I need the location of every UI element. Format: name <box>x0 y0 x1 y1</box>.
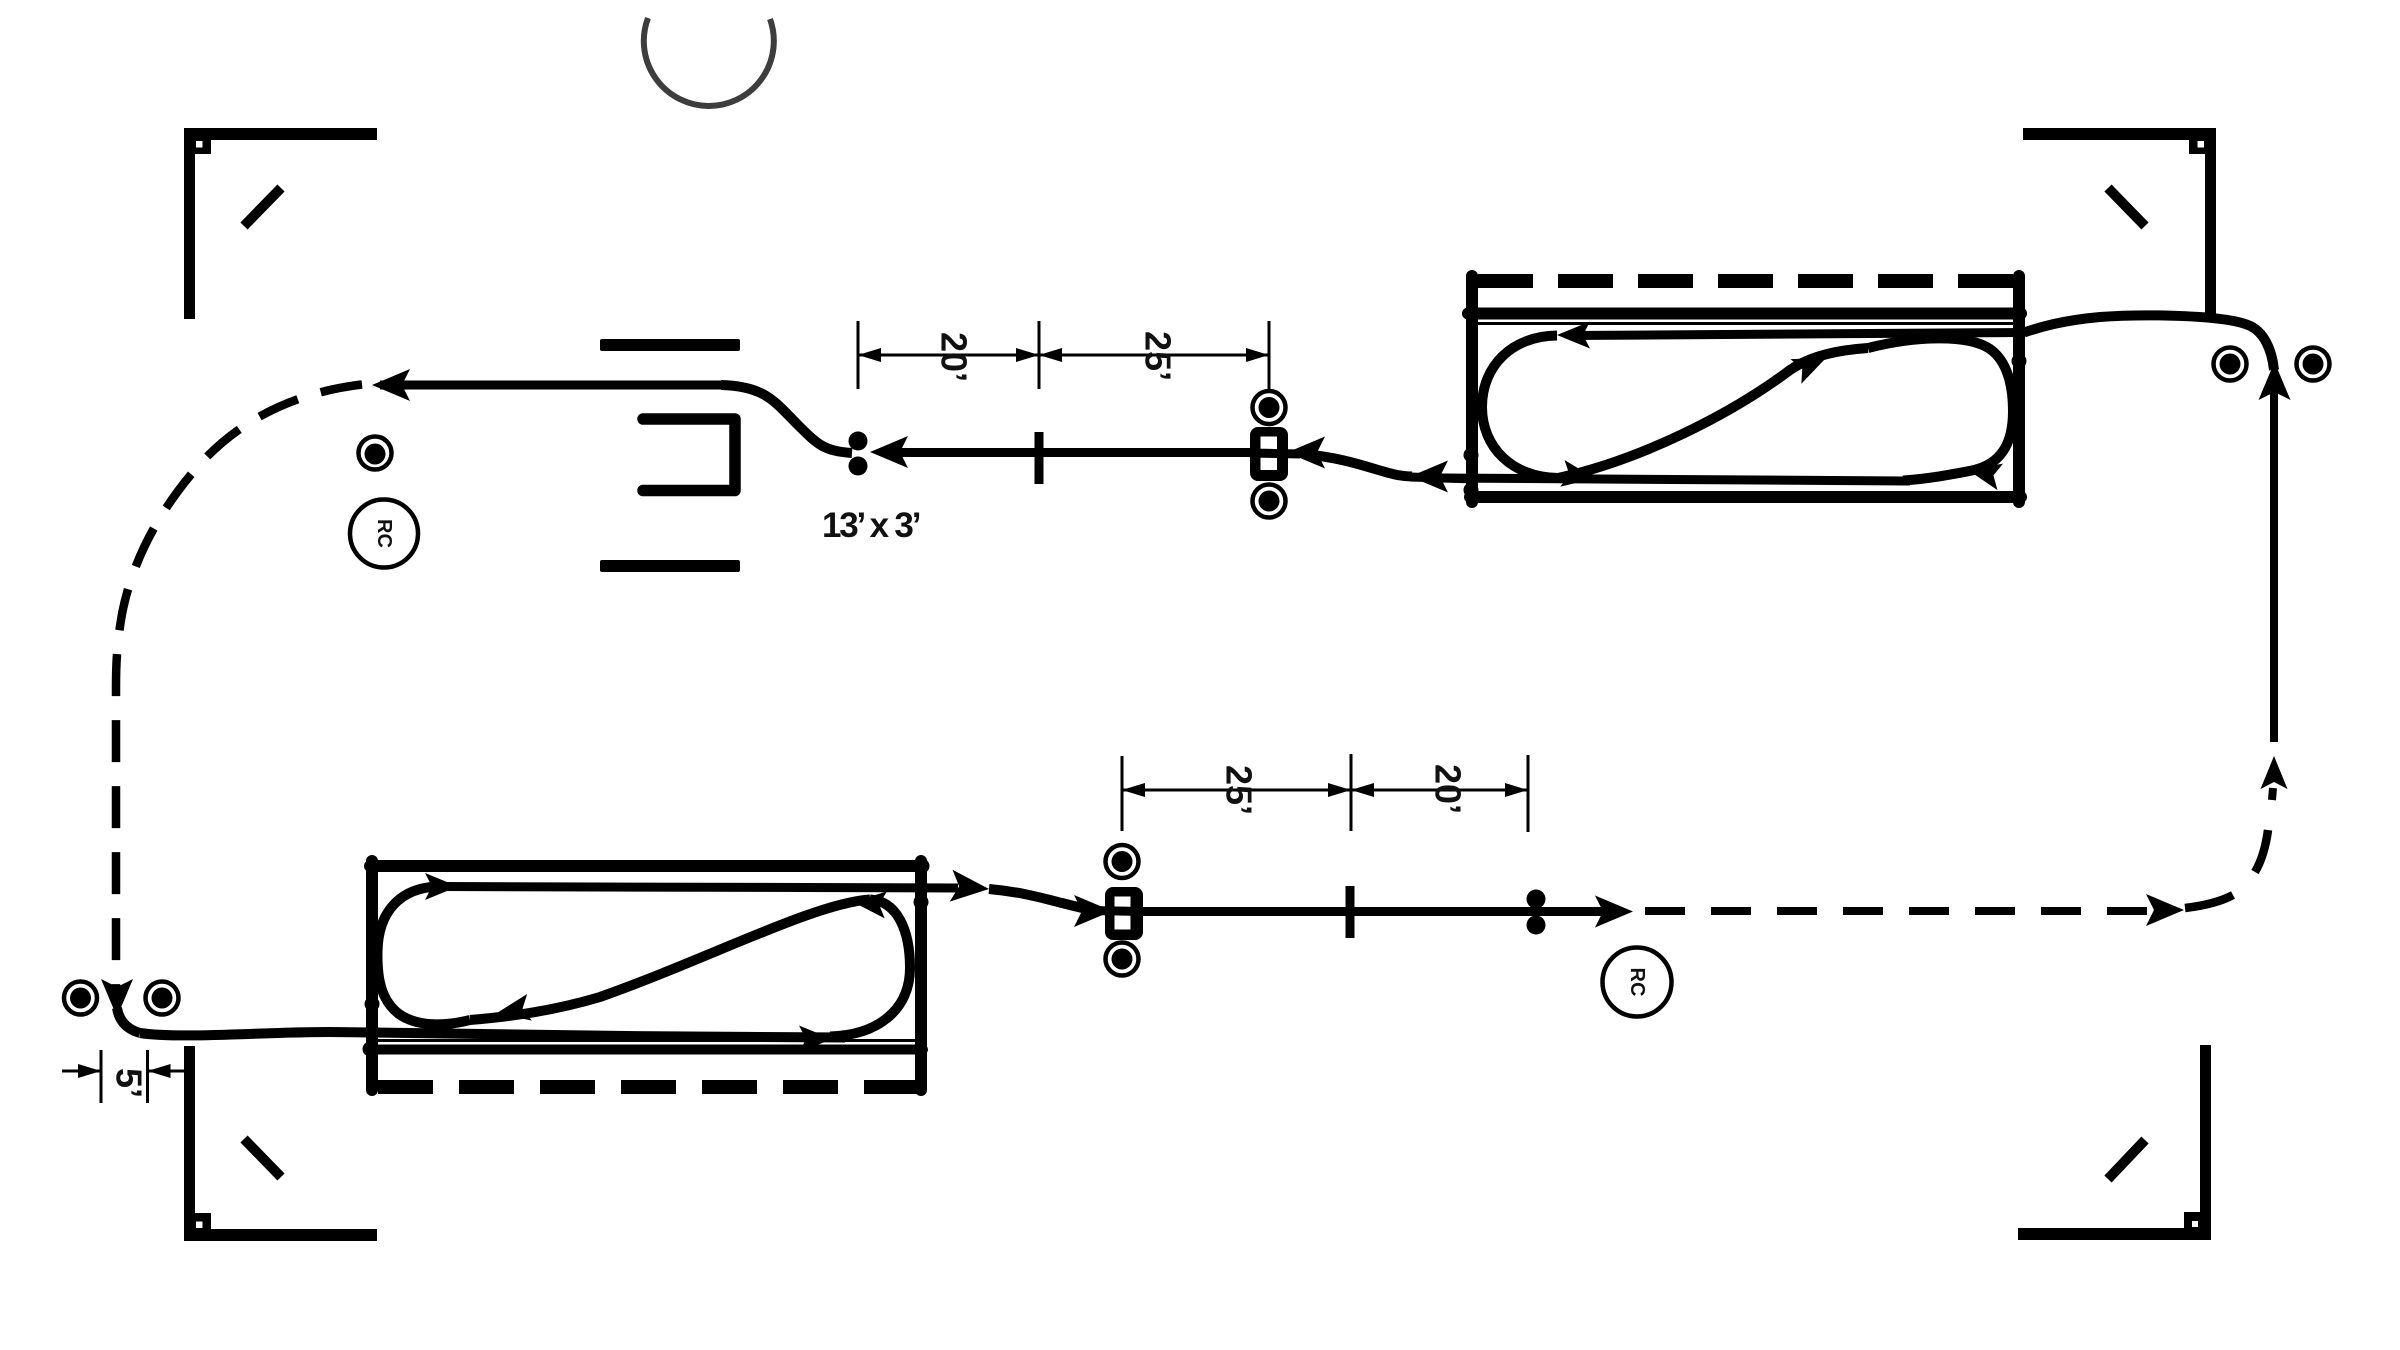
dashed line east <box>1645 907 2150 915</box>
top box path: entry arrow <box>1557 322 1590 349</box>
top box path: bottom return <box>1440 478 1910 481</box>
top box path: left U turn <box>1482 336 1558 479</box>
top box path: loop arrow <box>1965 457 2003 490</box>
top dimension: extension ticks <box>857 321 860 389</box>
corner marker top-right <box>2023 128 2216 319</box>
top box thin line <box>1474 322 2016 325</box>
bottom box path: entry arrow <box>799 1026 832 1053</box>
5ft dimension arrows <box>62 1070 101 1073</box>
bullseye cone upper-left <box>359 437 392 470</box>
bottom box path: diagonal arrow <box>495 994 532 1026</box>
svg-text:20’: 20’ <box>1427 764 1468 814</box>
chute C shape <box>643 419 735 491</box>
bottom course: 25ft tick <box>1346 886 1355 938</box>
top course: 25ft tick <box>1035 432 1044 484</box>
top box bottom edge <box>1470 491 2021 503</box>
bottom box cone dots on edges <box>365 997 380 1012</box>
bottom dimension ticks <box>1121 756 1124 831</box>
top course: gate arrow <box>1287 437 1325 469</box>
entry curve from dashed arrow <box>117 1008 140 1033</box>
bottom dimension line 20ft <box>1351 789 1528 792</box>
svg-text:20’: 20’ <box>933 332 974 382</box>
corner tick bottom-right <box>2108 1140 2145 1179</box>
top dimension line 20ft <box>858 354 1039 357</box>
bottom box path: left loop <box>377 887 470 1025</box>
top box path: diagonal arrow <box>1790 346 1831 384</box>
bottom box thin line <box>376 1039 917 1042</box>
dashed turn: up arrow dash <box>2272 788 2273 800</box>
bottom course cone dots <box>1527 890 1546 909</box>
bottom box dashed edge <box>378 1080 921 1094</box>
bottom box path: exit S curve <box>989 889 1093 910</box>
top box left side <box>1466 276 1478 502</box>
svg-text:25’: 25’ <box>1137 331 1178 381</box>
RC circle lower <box>1603 948 1672 1017</box>
corner tick top-left <box>244 188 281 226</box>
top gate symbol <box>1250 427 1288 481</box>
corner marker top-left <box>184 128 377 319</box>
bottom dimension line 25ft <box>1122 789 1351 792</box>
top course: exit arrow <box>1410 461 1448 493</box>
RC circle upper <box>350 500 418 568</box>
corner tick bottom-left <box>244 1139 281 1177</box>
dashed turn: mid dash <box>2255 830 2268 872</box>
bottom box path: U turn arrow <box>852 889 887 919</box>
arrow before dashes <box>1595 896 1633 928</box>
bottom box bottom edge <box>370 1045 923 1055</box>
top box path: diagonal <box>1558 348 1868 478</box>
bottom box left side <box>366 861 378 1090</box>
top box inner long line <box>1468 308 2021 320</box>
cone bullseye above top gate <box>1253 391 1286 424</box>
svg-text:RC: RC <box>373 519 395 548</box>
corner marker bottom-left <box>184 1046 377 1241</box>
top course: exit line into box <box>1410 477 1475 479</box>
dashed return arrow down <box>101 979 133 1017</box>
svg-text:5’: 5’ <box>108 1068 149 1098</box>
bullseye cone right-B <box>2297 348 2330 381</box>
bullseye cone right-A <box>2214 348 2247 381</box>
top course: west arrow <box>372 369 410 401</box>
top dimension line 25ft <box>1039 354 1269 357</box>
top course: S curve <box>721 385 852 453</box>
bullseye cone start-right <box>146 982 179 1015</box>
right vertical approach line <box>2270 372 2278 742</box>
top box path: entry line <box>1570 333 2024 336</box>
cone dots at 20ft point <box>849 432 868 451</box>
top course: mid line <box>900 448 1250 457</box>
top box path: U turn arrow <box>1560 460 1597 492</box>
svg-text:25’: 25’ <box>1218 765 1259 815</box>
bullseye cone start-left <box>64 982 97 1015</box>
bottom box path: exit arrow <box>950 870 991 905</box>
top course: arrow at dots <box>870 436 908 468</box>
top course: west line <box>380 381 721 390</box>
chute bar lower <box>600 560 740 572</box>
bottom box path: top line arrow <box>425 873 458 900</box>
bottom gate arrow <box>1074 895 1112 927</box>
entry curve from right vertical to top box <box>2024 315 2274 370</box>
corner marker bottom-right <box>2018 1045 2211 1240</box>
dashed approach arrow <box>2146 894 2184 926</box>
bottom gate symbol <box>1105 887 1143 940</box>
cone bullseye below top gate <box>1253 485 1286 518</box>
chute bar upper <box>600 339 740 351</box>
top course: line through gate <box>1250 453 1300 454</box>
bottom box path: right U turn <box>830 900 910 1037</box>
top box right side <box>2013 276 2025 502</box>
dashed return curve west <box>116 385 362 999</box>
svg-text:13’ x 3’: 13’ x 3’ <box>822 506 920 545</box>
bottom box path: diagonal <box>470 900 870 1021</box>
right vertical arrow <box>2259 362 2291 400</box>
5ft dimension ticks <box>100 1050 103 1103</box>
top box path: right loop <box>1868 338 2013 480</box>
corner tick top-right <box>2108 188 2145 226</box>
bottom box top edge <box>370 860 923 872</box>
bottom box path: entry line <box>140 1032 845 1038</box>
bottom course: line through gate <box>1090 911 1143 912</box>
top box cone dots on edges <box>1464 448 1479 463</box>
bottom course: line right of gate <box>1143 907 1610 916</box>
svg-text:RC: RC <box>1626 968 1648 997</box>
dashed turn: low dash <box>2185 895 2233 908</box>
start arc (top center) <box>644 18 774 106</box>
cone bullseye above bottom gate <box>1106 845 1139 878</box>
top course: exit S curve <box>1303 454 1412 477</box>
top box dashed edge <box>1478 274 2014 288</box>
bottom box path: top line <box>440 887 958 889</box>
cone bullseye below bottom gate <box>1106 943 1139 976</box>
bottom box right side <box>915 861 927 1090</box>
